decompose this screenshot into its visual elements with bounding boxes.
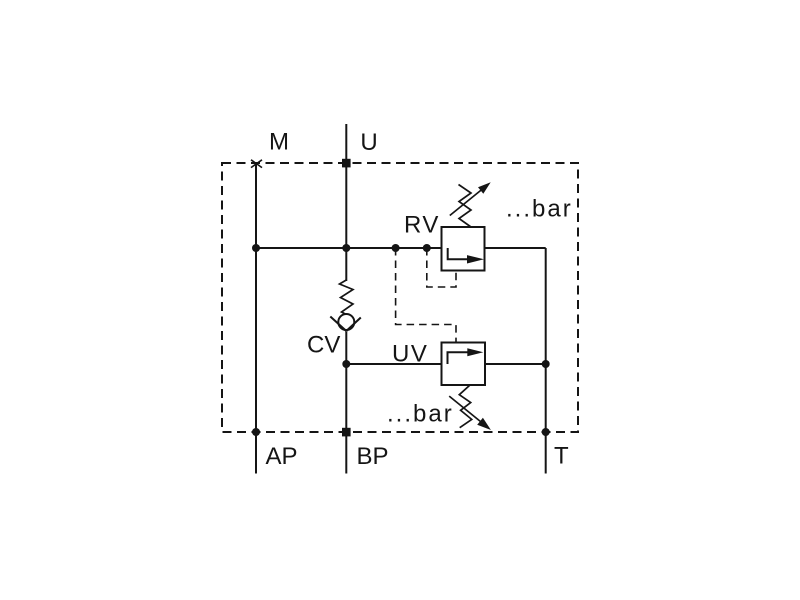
node pilot RV takeoff bbox=[423, 244, 431, 252]
UV internal flow arrow bbox=[448, 352, 470, 364]
node T x UV line bbox=[542, 360, 550, 368]
svg-text:RV: RV bbox=[404, 212, 440, 239]
relief valve RV body bbox=[442, 227, 485, 271]
node AP at border bbox=[252, 428, 260, 436]
svg-text:T: T bbox=[554, 443, 569, 470]
svg-text:...bar: ...bar bbox=[506, 196, 573, 223]
wire BP to UV bbox=[346, 363, 441, 365]
svg-text:BP: BP bbox=[357, 443, 389, 470]
node BP at border bbox=[342, 428, 351, 437]
RV internal flow arrow bbox=[448, 248, 469, 259]
check valve CV seat bbox=[330, 317, 346, 332]
plugged port X at M bbox=[251, 160, 262, 168]
check valve CV spring bbox=[340, 280, 354, 315]
node U x P bbox=[342, 244, 350, 252]
svg-text:AP: AP bbox=[266, 443, 298, 470]
RV adjust arrow bbox=[450, 186, 486, 215]
svg-text:M: M bbox=[269, 129, 289, 156]
wire M/AP vertical bbox=[255, 163, 257, 474]
svg-text:...bar: ...bar bbox=[387, 401, 454, 428]
svg-text:CV: CV bbox=[307, 332, 340, 359]
node BP x UV line bbox=[342, 360, 350, 368]
unloading valve UV body bbox=[442, 343, 486, 386]
RV pilot dashed loop bbox=[427, 248, 456, 287]
node U at border bbox=[342, 159, 351, 168]
wire T vertical bbox=[545, 248, 547, 474]
wire main horizontal P line bbox=[256, 247, 442, 249]
svg-text:U: U bbox=[360, 129, 377, 156]
UV pilot dashed line bbox=[396, 248, 456, 343]
wire RV outlet to T bbox=[485, 247, 546, 249]
check valve CV ball bbox=[338, 314, 354, 330]
node T at border bbox=[542, 428, 550, 436]
node pilot UV takeoff bbox=[392, 244, 400, 252]
junction node dots bbox=[252, 159, 550, 437]
wire UV outlet to T bbox=[485, 363, 546, 365]
RV adjustable spring bbox=[459, 185, 472, 228]
node M x P bbox=[252, 244, 260, 252]
enclosure dashed border bbox=[222, 163, 578, 432]
UV adjust arrow bbox=[449, 396, 486, 426]
wire U/BP vertical (broken at check valve) bbox=[345, 124, 347, 281]
UV adjustable spring bbox=[459, 385, 471, 428]
